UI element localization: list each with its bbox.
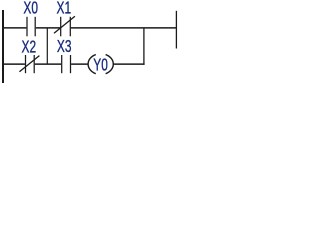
svg-text:X3: X3	[57, 37, 72, 57]
svg-text:X2: X2	[22, 37, 37, 57]
svg-text:X1: X1	[57, 0, 72, 18]
svg-text:X0: X0	[23, 0, 38, 18]
svg-text:Y0: Y0	[93, 55, 108, 75]
